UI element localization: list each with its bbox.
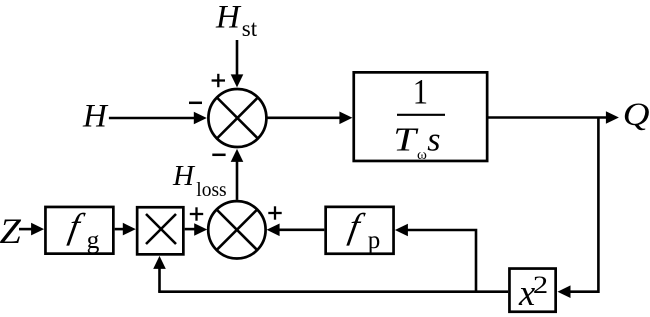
svg-text:T: T <box>393 122 418 159</box>
svg-text:H: H <box>172 160 196 192</box>
wire integrator output to Q <box>489 111 619 124</box>
sign plus at SUM1 top input <box>212 74 225 87</box>
wire SUM1 to integrator block <box>267 112 353 125</box>
svg-text:ω: ω <box>417 147 427 163</box>
wire f_p output to SUM2 <box>267 224 325 237</box>
svg-text:Q: Q <box>623 96 650 132</box>
svg-text:2: 2 <box>533 271 548 299</box>
svg-text:loss: loss <box>196 180 226 201</box>
block f_p <box>326 206 394 254</box>
wire branch down from Q line to x^2 block <box>558 118 599 299</box>
wire H input to SUM1 <box>109 112 207 125</box>
svg-text:1: 1 <box>413 72 428 112</box>
sign plus at SUM2 right input <box>268 206 281 219</box>
wire M1 output to SUM2 <box>185 223 208 236</box>
svg-text:H: H <box>215 0 242 36</box>
block U1 integrator 1/(Tw s) <box>354 72 487 163</box>
svg-text:st: st <box>242 16 258 41</box>
svg-text:Z: Z <box>0 211 21 250</box>
wire f_g output to M1 <box>115 223 136 236</box>
wire SUM2 output up to SUM1 bottom <box>231 149 244 200</box>
wire Z input to f_g <box>19 223 44 236</box>
summing junction SUM1 <box>208 89 266 147</box>
block f_g <box>45 206 113 254</box>
svg-text:H: H <box>82 98 109 134</box>
wire feedback up into M1 bottom <box>153 256 166 292</box>
wire junction up to f_p block <box>395 224 476 292</box>
label Hloss <box>172 160 227 201</box>
svg-text:s: s <box>427 121 440 158</box>
multiplier M1 <box>137 207 183 254</box>
wire x^2 output left along bottom <box>158 290 508 293</box>
label Hst <box>215 0 258 41</box>
svg-text:g: g <box>87 225 100 254</box>
summing junction SUM2 <box>208 201 265 258</box>
sign minus at SUM1 left input <box>189 102 202 105</box>
block x^2 <box>509 269 555 313</box>
sign plus at SUM2 left input <box>190 207 203 220</box>
wire Hst input down to summing junction SUM1 <box>231 40 244 87</box>
sign minus at SUM1 bottom input <box>212 154 225 157</box>
svg-text:p: p <box>368 227 381 254</box>
